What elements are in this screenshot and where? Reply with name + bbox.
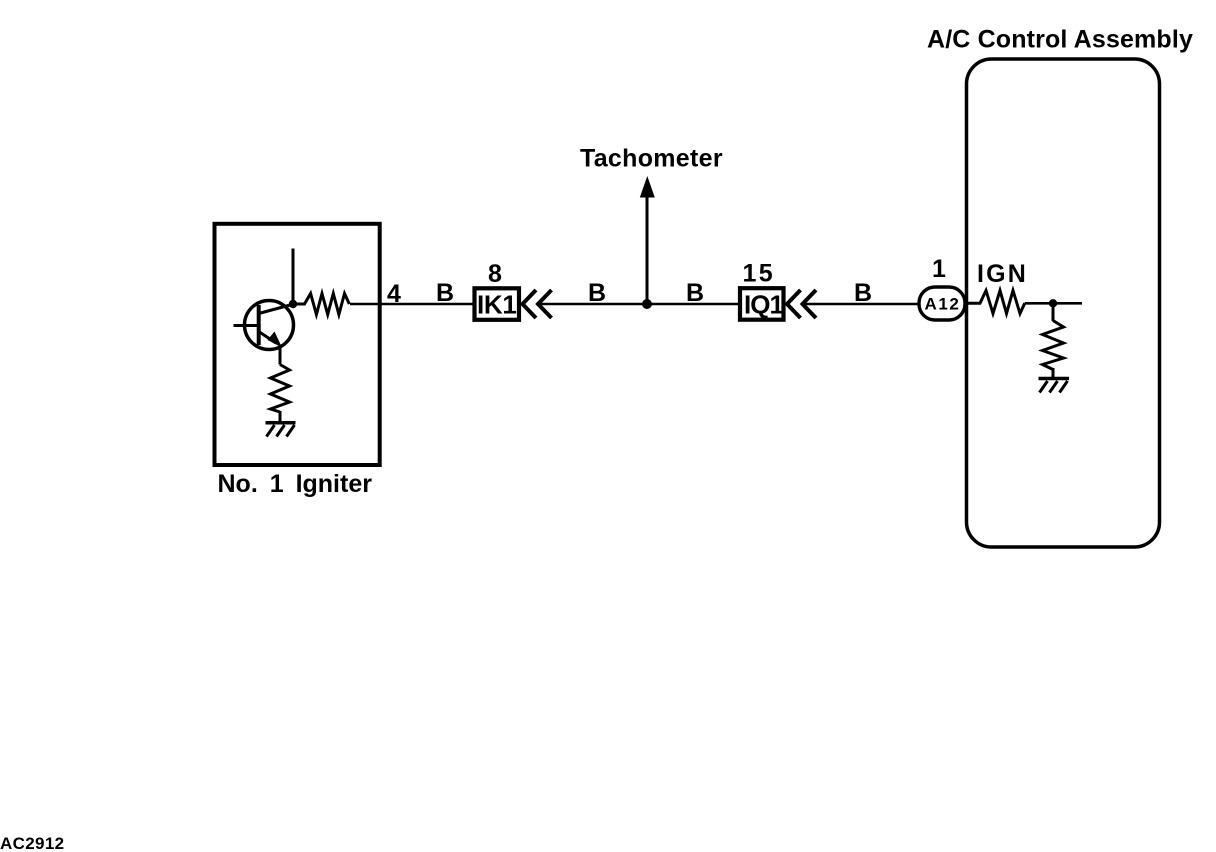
resistor R4 (to ground) — [1043, 321, 1064, 370]
wire resistor to pin 4 — [350, 303, 473, 306]
wire resistor to node — [1025, 302, 1082, 305]
svg-text:No. 1 Igniter: No. 1 Igniter — [218, 470, 373, 498]
igniter box — [215, 224, 380, 465]
node dot — [1049, 299, 1057, 307]
svg-text:15: 15 — [743, 260, 776, 288]
connector chevrons IQ1 — [787, 290, 801, 318]
svg-text:IK1: IK1 — [477, 290, 517, 320]
svg-text:1: 1 — [932, 255, 946, 283]
svg-text:B: B — [588, 279, 606, 307]
svg-text:B: B — [686, 279, 704, 307]
ground (igniter) — [266, 423, 296, 437]
svg-text:4: 4 — [387, 280, 401, 308]
ground (A/C assembly) — [1039, 379, 1070, 393]
wire collector to node — [292, 249, 295, 304]
svg-text:B: B — [436, 279, 454, 307]
wire junction to IQ1 — [647, 303, 740, 306]
svg-text:IQ1: IQ1 — [744, 290, 783, 320]
svg-text:8: 8 — [488, 260, 502, 288]
wire emitter down — [279, 345, 282, 365]
wire resistor to ground — [1052, 368, 1055, 378]
connector A12 — [919, 287, 965, 320]
svg-text:IGN: IGN — [977, 260, 1028, 288]
svg-text:AC2912: AC2912 — [0, 834, 64, 852]
wire node down — [1052, 303, 1055, 321]
resistor R3 (IGN) — [967, 291, 1025, 314]
connector IK1 — [475, 288, 520, 320]
transistor Q1 — [234, 301, 294, 350]
wire resistor to ground — [279, 411, 282, 422]
connector chevrons IK1 — [523, 290, 537, 318]
svg-text:A12: A12 — [925, 295, 961, 314]
arrowhead to tachometer — [640, 176, 655, 198]
resistor R1 (base series) — [293, 294, 349, 315]
svg-text:Tachometer: Tachometer — [580, 145, 723, 173]
node junction dot — [289, 300, 297, 308]
resistor R2 (emitter to ground) — [271, 365, 290, 413]
svg-text:B: B — [854, 279, 872, 307]
junction node dot — [642, 299, 652, 309]
A/C control assembly box — [967, 59, 1160, 547]
wire junction up to tachometer — [646, 196, 649, 304]
connector IQ1 — [740, 288, 784, 320]
svg-text:A/C Control Assembly: A/C Control Assembly — [927, 26, 1193, 54]
wire IQ1 to A12 — [803, 303, 919, 306]
wire IK1 to junction — [538, 303, 647, 306]
